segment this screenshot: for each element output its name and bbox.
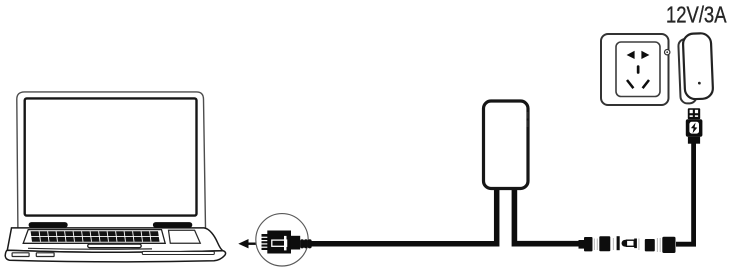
RJ45 contacts block: [262, 234, 268, 250]
adapter LED dot: [698, 82, 701, 85]
shading line: [638, 239, 640, 251]
RJ45 white slot frame: [272, 240, 287, 246]
adapter front face: [683, 33, 714, 100]
adapter side face: [678, 39, 697, 104]
socket bottom-left slot: [627, 80, 633, 88]
device (power receiver): [484, 101, 529, 189]
socket inner plate: [616, 42, 660, 97]
laptop trackpad panel: [169, 230, 201, 243]
RJ45 plug in callout: [262, 231, 312, 254]
laptop hinge right: [153, 222, 192, 228]
wire connector to device left leg: [310, 189, 497, 244]
USB shield: [688, 108, 700, 119]
DC barrel base bar: [634, 239, 637, 249]
DC jack block D: [645, 239, 655, 251]
DC plug body: [584, 237, 593, 251]
wall socket: [601, 34, 670, 105]
svg-text:12V/3A: 12V/3A: [666, 2, 727, 28]
laptop keyboard keys: [31, 231, 160, 242]
socket top-right flat slot: [641, 51, 649, 59]
wire device right leg to DC connector: [514, 189, 581, 244]
laptop keyboard recess: [23, 230, 165, 244]
socket earth slot: [637, 65, 640, 74]
socket outer plate: [601, 34, 669, 105]
USB bolt icon: [691, 123, 697, 134]
DC barrel body: [626, 240, 634, 246]
RJ45 body: [267, 231, 291, 254]
shading lines: [593, 239, 595, 251]
laptop keyboard deck: [7, 228, 223, 252]
laptop front port 1: [12, 253, 29, 257]
power adapter: [678, 33, 713, 104]
DC plug boot: [579, 240, 586, 249]
laptop display inner bezel: [25, 98, 197, 215]
DC inline connector: [579, 236, 676, 253]
USB body: [686, 119, 703, 136]
laptop front notch bar: [88, 244, 142, 248]
DC plug block B: [599, 236, 610, 251]
socket top-left flat slot: [627, 51, 635, 59]
laptop front face: [5, 250, 225, 262]
DC plug collar bar: [617, 236, 620, 250]
laptop front port 2: [36, 253, 54, 257]
laptop hinge left: [29, 222, 68, 228]
wire DC connector to USB plug: [676, 143, 694, 244]
DC jack body E: [662, 237, 675, 253]
laptop: [5, 92, 225, 262]
laptop front drive slot: [142, 251, 214, 254]
callout circle: [256, 214, 308, 266]
socket bottom-right slot: [643, 80, 649, 88]
shading line: [612, 238, 614, 250]
USB icon plate: [689, 122, 699, 134]
RJ45 strain relief bumps: [300, 239, 304, 248]
socket screw: [665, 50, 670, 55]
DC barrel tip: [622, 240, 627, 247]
USB neck: [688, 137, 700, 144]
shading lines: [656, 238, 658, 252]
device side buttons: [527, 112, 529, 119]
arrow to laptop: [238, 239, 257, 248]
RJ45 white latch bar: [284, 236, 287, 251]
laptop deck groove line: [28, 247, 152, 250]
laptop screen outer shell: [17, 92, 206, 228]
USB plug: [686, 108, 703, 143]
RJ45 nose: [291, 236, 301, 250]
